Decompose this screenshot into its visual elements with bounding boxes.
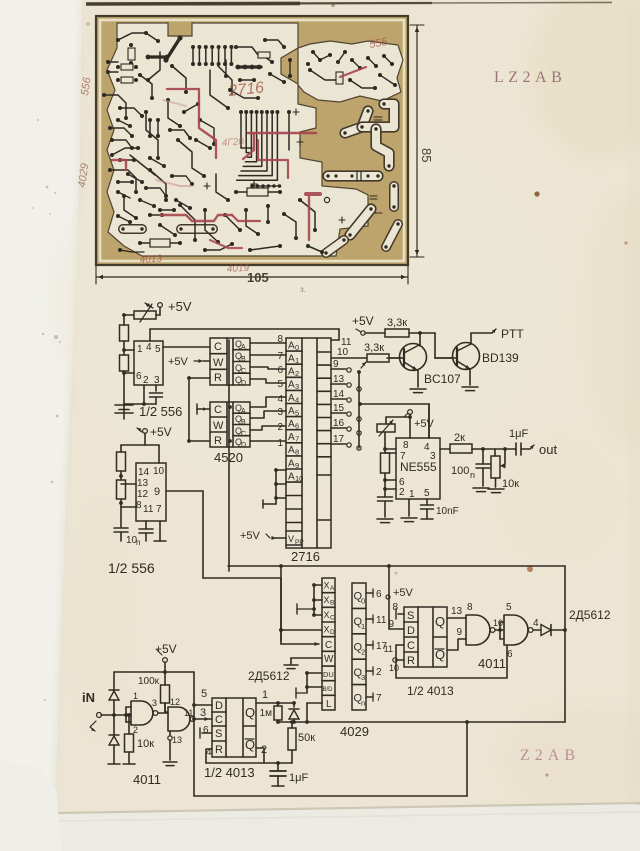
svg-text:B: B (241, 419, 246, 426)
svg-text:X: X (324, 625, 330, 635)
svg-text:2: 2 (295, 369, 299, 378)
svg-text:8: 8 (136, 500, 142, 511)
svg-text:8: 8 (277, 334, 283, 345)
svg-text:C: C (325, 640, 332, 651)
svg-text:n: n (361, 698, 365, 707)
svg-text:V: V (288, 534, 294, 544)
svg-text:10nF: 10nF (436, 506, 459, 517)
svg-text:B: B (241, 356, 246, 363)
svg-text:10к: 10к (502, 478, 519, 490)
svg-text:11: 11 (184, 708, 193, 718)
svg-text:3,3к: 3,3к (387, 317, 407, 329)
svg-text:1: 1 (295, 356, 299, 365)
svg-text:з.: з. (300, 285, 306, 294)
svg-text:4: 4 (277, 394, 283, 405)
svg-text:D: D (407, 625, 415, 637)
svg-text:4011: 4011 (133, 772, 161, 787)
svg-text:+5V: +5V (414, 418, 435, 430)
svg-text:C: C (330, 614, 335, 621)
svg-text:D: D (241, 442, 246, 449)
svg-text:13: 13 (333, 374, 345, 385)
svg-text:4029: 4029 (340, 724, 369, 739)
svg-text:1м: 1м (260, 708, 273, 719)
svg-text:11: 11 (384, 644, 393, 654)
svg-text:Z2AB: Z2AB (520, 747, 580, 764)
svg-text:105: 105 (247, 270, 269, 285)
svg-text:+5V: +5V (393, 587, 414, 599)
svg-text:85: 85 (419, 148, 434, 162)
svg-text:LZ2AB: LZ2AB (494, 69, 566, 86)
svg-text:X: X (324, 581, 330, 591)
svg-text:6: 6 (136, 371, 142, 382)
svg-text:2: 2 (133, 725, 138, 735)
svg-text:A: A (288, 340, 295, 351)
svg-text:10: 10 (493, 618, 503, 628)
svg-text:D: D (215, 700, 223, 712)
svg-text:4: 4 (146, 342, 152, 353)
svg-text:4011: 4011 (478, 656, 506, 671)
svg-text:W: W (213, 357, 224, 369)
svg-text:2Д5612: 2Д5612 (248, 669, 290, 683)
svg-text:1: 1 (409, 489, 415, 500)
svg-text:12: 12 (137, 489, 149, 500)
svg-text:C: C (241, 368, 246, 375)
svg-text:13: 13 (451, 606, 463, 617)
svg-text:+5V: +5V (352, 314, 374, 328)
svg-text:7: 7 (277, 351, 283, 362)
svg-text:A: A (241, 344, 246, 351)
svg-text:1μF: 1μF (289, 772, 308, 784)
svg-text:R: R (215, 744, 223, 756)
svg-text:D: D (330, 629, 335, 636)
svg-text:DU: DU (323, 670, 334, 679)
svg-text:2: 2 (277, 422, 283, 433)
svg-text:4Г20: 4Г20 (221, 136, 244, 149)
svg-text:C: C (214, 404, 222, 416)
svg-text:5: 5 (506, 602, 512, 613)
svg-text:14: 14 (333, 389, 345, 400)
svg-text:8: 8 (403, 440, 409, 451)
svg-text:A: A (288, 432, 295, 443)
svg-text:5: 5 (201, 688, 207, 700)
svg-text:1: 1 (262, 689, 268, 701)
svg-text:+5V: +5V (150, 425, 172, 439)
svg-text:3: 3 (200, 707, 206, 719)
svg-text:1/2 556: 1/2 556 (139, 404, 182, 419)
svg-text:A: A (288, 445, 295, 456)
svg-text:1: 1 (133, 691, 138, 701)
svg-text:n: n (470, 470, 475, 480)
svg-text:6: 6 (203, 725, 209, 736)
svg-text:10: 10 (153, 466, 165, 477)
svg-text:A: A (288, 471, 295, 482)
svg-text:5: 5 (155, 344, 161, 355)
svg-text:9: 9 (295, 461, 299, 470)
svg-text:14: 14 (138, 467, 150, 478)
svg-text:50к: 50к (298, 732, 315, 744)
svg-text:out: out (539, 442, 557, 457)
svg-text:4: 4 (295, 395, 299, 404)
svg-text:3,3к: 3,3к (364, 342, 384, 354)
svg-text:9: 9 (333, 359, 339, 370)
svg-text:1: 1 (277, 438, 283, 449)
svg-text:3: 3 (361, 673, 365, 682)
svg-text:7: 7 (156, 504, 162, 515)
svg-text:L: L (326, 699, 332, 710)
svg-text:BC107: BC107 (424, 372, 461, 386)
svg-text:100: 100 (451, 465, 469, 477)
svg-text:12: 12 (170, 697, 180, 707)
svg-text:3: 3 (154, 375, 160, 386)
svg-text:5: 5 (424, 488, 430, 499)
svg-text:iN: iN (82, 690, 95, 705)
svg-text:0: 0 (361, 597, 365, 606)
svg-text:2: 2 (361, 648, 365, 657)
svg-text:n: n (136, 538, 140, 547)
svg-text:BD139: BD139 (482, 351, 519, 365)
svg-text:3: 3 (277, 407, 283, 418)
svg-text:1: 1 (137, 344, 143, 355)
svg-text:R: R (214, 372, 222, 384)
svg-text:C: C (215, 714, 223, 726)
svg-text:11: 11 (143, 504, 154, 515)
svg-text:3: 3 (295, 382, 299, 391)
svg-text:8: 8 (295, 448, 299, 457)
svg-text:8: 8 (467, 602, 473, 613)
svg-text:2: 2 (399, 487, 405, 498)
svg-text:6: 6 (376, 589, 382, 600)
svg-text:2: 2 (376, 667, 382, 678)
svg-text:1: 1 (361, 622, 365, 631)
svg-text:S: S (407, 610, 414, 622)
svg-text:X: X (324, 595, 330, 605)
svg-text:R: R (214, 435, 222, 447)
svg-text:9: 9 (154, 486, 160, 498)
svg-text:+5V: +5V (155, 642, 177, 656)
svg-text:A: A (288, 367, 295, 378)
svg-text:3: 3 (152, 698, 157, 708)
svg-text:B: B (330, 600, 334, 607)
svg-text:A: A (288, 406, 295, 417)
svg-text:3: 3 (430, 451, 436, 462)
svg-text:7: 7 (376, 693, 382, 704)
svg-text:15: 15 (333, 403, 345, 414)
svg-text:9: 9 (456, 627, 462, 638)
svg-text:10: 10 (337, 347, 349, 358)
svg-text:C: C (214, 341, 222, 353)
svg-text:16: 16 (333, 418, 345, 429)
svg-text:W: W (324, 654, 334, 665)
svg-text:1/2 556: 1/2 556 (108, 560, 155, 576)
svg-text:D: D (241, 380, 246, 387)
svg-text:9: 9 (388, 619, 394, 630)
svg-text:+5V: +5V (168, 299, 192, 314)
svg-text:+5V: +5V (168, 356, 189, 368)
svg-text:10к: 10к (137, 738, 154, 750)
svg-text:4013: 4013 (139, 253, 162, 266)
svg-text:PTT: PTT (501, 327, 524, 341)
svg-text:100к: 100к (138, 676, 160, 687)
svg-text:1/2 4013: 1/2 4013 (204, 765, 255, 780)
svg-text:R: R (407, 655, 415, 667)
svg-text:PP: PP (295, 539, 304, 546)
svg-text:A: A (288, 393, 295, 404)
svg-text:A: A (288, 458, 295, 469)
svg-text:NE555: NE555 (400, 460, 437, 474)
svg-text:7: 7 (400, 451, 406, 462)
svg-text:1μF: 1μF (509, 428, 528, 440)
svg-text:4: 4 (533, 618, 539, 629)
svg-text:11: 11 (376, 615, 387, 626)
svg-text:S: S (215, 728, 222, 740)
svg-text:0: 0 (295, 343, 299, 352)
svg-text:6: 6 (295, 422, 299, 431)
svg-text:1/2 4013: 1/2 4013 (407, 684, 454, 698)
svg-text:13: 13 (137, 478, 149, 489)
svg-text:2к: 2к (454, 432, 465, 444)
svg-text:Q: Q (435, 614, 445, 629)
svg-text:13: 13 (172, 735, 182, 745)
svg-text:7: 7 (295, 435, 299, 444)
svg-text:C: C (407, 640, 415, 652)
svg-text:A: A (288, 380, 295, 391)
svg-text:A: A (288, 354, 295, 365)
svg-text:6: 6 (277, 365, 283, 376)
svg-text:10: 10 (389, 663, 399, 673)
svg-text:Q: Q (245, 705, 255, 720)
svg-text:17: 17 (333, 434, 345, 445)
svg-text:B/D: B/D (323, 687, 334, 693)
svg-text:2716: 2716 (291, 549, 320, 564)
svg-text:W: W (213, 420, 224, 432)
svg-text:2Д5612: 2Д5612 (569, 608, 611, 622)
svg-text:+5V: +5V (240, 530, 261, 542)
svg-text:X: X (324, 610, 330, 620)
svg-text:A: A (330, 585, 335, 592)
svg-text:5: 5 (277, 379, 283, 390)
svg-text:10: 10 (295, 474, 303, 483)
svg-text:A: A (288, 419, 295, 430)
svg-text:5: 5 (295, 408, 299, 417)
svg-text:6: 6 (507, 649, 513, 660)
